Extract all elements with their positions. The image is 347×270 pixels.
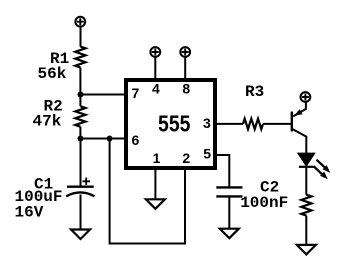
wire node B down to C1 xyxy=(80,139,82,187)
svg-text:555: 555 xyxy=(158,111,191,137)
ground (below C2) xyxy=(220,229,239,239)
resistor R1 xyxy=(75,47,85,68)
wire V+ to pin 4 xyxy=(154,57,156,80)
LED light arrows xyxy=(314,160,331,180)
ground (below C1) xyxy=(71,230,90,240)
capacitor C2 xyxy=(216,187,242,196)
wire pin 5 to C2 xyxy=(215,155,229,187)
power symbol V+ (transistor emitter) xyxy=(301,92,311,102)
resistor R3 xyxy=(243,119,263,129)
svg-text:2: 2 xyxy=(182,150,190,166)
svg-text:5: 5 xyxy=(203,145,211,161)
wire pin 1 to ground xyxy=(154,170,156,199)
wire C2 to ground xyxy=(228,196,230,228)
svg-text:16V: 16V xyxy=(15,203,44,221)
wire pin 3 to R3 xyxy=(215,123,243,125)
capacitor C1 xyxy=(66,178,94,197)
wire R1 to node A xyxy=(79,67,81,94)
wire node A to pin 7 xyxy=(81,94,127,96)
resistor R4 (LED series) xyxy=(301,195,311,216)
power symbol V+ (above pin 8) xyxy=(180,47,190,57)
power symbol V+ (above pin 4) xyxy=(150,47,160,57)
wire R3 to transistor base xyxy=(263,123,291,125)
ground (below pin 1) xyxy=(146,199,165,209)
svg-text:4: 4 xyxy=(152,81,160,97)
svg-text:6: 6 xyxy=(132,132,140,148)
svg-text:R3: R3 xyxy=(245,83,264,101)
wire C1 to ground xyxy=(80,195,82,230)
resistor R2 xyxy=(75,95,85,139)
ground (below LED resistor) xyxy=(297,245,316,255)
LED D1 xyxy=(298,153,314,166)
svg-text:3: 3 xyxy=(203,115,211,131)
svg-text:1: 1 xyxy=(153,150,161,166)
svg-text:56k: 56k xyxy=(38,65,67,83)
svg-text:100nF: 100nF xyxy=(240,194,288,212)
svg-text:7: 7 xyxy=(132,85,140,101)
wire R4 to ground xyxy=(305,216,307,245)
node B (junction R2/C1/pin6) xyxy=(78,136,84,142)
IC U1 555 xyxy=(126,80,215,168)
svg-text:47k: 47k xyxy=(33,113,62,131)
node A (junction R1/R2/pin7) xyxy=(78,92,84,98)
node C (junction to pin2 rail) xyxy=(107,136,113,142)
wire LED to R4 xyxy=(305,167,307,195)
wire V+ to R1 xyxy=(80,27,82,46)
wire node B to pin 6 xyxy=(81,138,127,140)
wire V+ to pin 8 xyxy=(184,57,186,80)
svg-text:8: 8 xyxy=(182,81,190,97)
wire node C down and right to pin 2 xyxy=(110,139,185,244)
transistor Q1 (PNP) xyxy=(292,102,307,153)
power symbol V+ (top left) xyxy=(75,17,85,27)
